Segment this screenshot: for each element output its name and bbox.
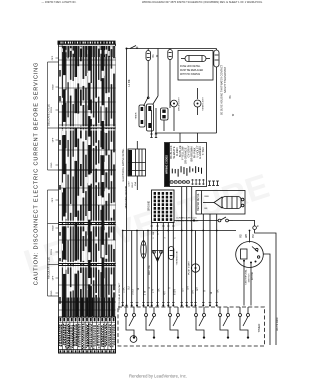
wire to legend: [155, 132, 217, 134]
terminal marks: [150, 134, 157, 138]
svg-text:WITH P/N 3392519: WITH P/N 3392519: [180, 74, 201, 76]
svg-text:FUSE LINK DETAIL: FUSE LINK DETAIL: [180, 65, 201, 68]
svg-text:T-TAN: T-TAN: [201, 147, 205, 155]
svg-text:OFF: OFF: [53, 137, 55, 142]
timer motor block A: [139, 105, 145, 127]
svg-text:6 OR: 6 OR: [173, 289, 176, 295]
safety thermostat: [214, 49, 219, 68]
svg-text:CAUTION: DISCONNECT ELECTRIC C: CAUTION: DISCONNECT ELECTRIC CURRENT BEF…: [33, 62, 39, 285]
stub to legend A: [179, 133, 181, 143]
svg-text:COOL: COOL: [51, 106, 53, 113]
svg-text:BK: BK: [152, 54, 155, 58]
spec labels: [129, 181, 138, 188]
wire to terminal: [233, 221, 255, 226]
legend middle marks: [172, 166, 202, 176]
svg-text:CENTRIFUGAL: CENTRIFUGAL: [245, 269, 248, 285]
svg-text:WH: WH: [246, 234, 248, 238]
wiring code legend box: [165, 143, 207, 187]
timer chart terminal code table: [59, 317, 116, 353]
svg-text:WHITE WIRE: WHITE WIRE: [277, 317, 279, 331]
belt switch: [153, 251, 163, 262]
svg-text:THERMOSTAT: THERMOSTAT: [176, 250, 179, 265]
svg-text:BR: BR: [192, 290, 195, 294]
wire top feed: [127, 48, 217, 50]
svg-text:1 BK: 1 BK: [123, 287, 126, 293]
svg-text:HEAT: HEAT: [52, 84, 55, 90]
regular cycle bracket: [48, 190, 59, 296]
svg-text:PUSH START: PUSH START: [188, 261, 191, 275]
svg-text:HEATER DETAIL: HEATER DETAIL: [197, 192, 200, 210]
svg-text:OFF: OFF: [53, 275, 55, 280]
timer motor block B: [147, 104, 154, 131]
svg-text:MOTOR RELAY CONTACT: MOTOR RELAY CONTACT: [118, 282, 121, 309]
svg-text:TIMER: TIMER: [257, 324, 261, 333]
svg-text:WIRING CODES: WIRING CODES: [166, 155, 169, 174]
junction: [193, 219, 195, 221]
svg-text:TIMER: TIMER: [136, 112, 138, 119]
svg-text:SAFETY THERMOSTAT: SAFETY THERMOSTAT: [224, 66, 227, 93]
svg-text:60HZ: 60HZ: [132, 182, 134, 188]
switch door: [130, 46, 136, 49]
svg-text:TIMER LIGHT: TIMER LIGHT: [203, 96, 205, 111]
svg-text:MOISTURE SENSOR: MOISTURE SENSOR: [126, 185, 128, 208]
svg-text:RED: RED: [205, 196, 210, 198]
cycle tick dashes: [56, 58, 59, 293]
stub to legend B: [197, 133, 199, 143]
svg-text:COOL: COOL: [51, 248, 53, 255]
legend extra symbols: [208, 181, 219, 186]
timer switch 4: [195, 307, 206, 339]
svg-text:BU: BU: [253, 234, 255, 238]
svg-text:2 R: 2 R: [152, 289, 155, 293]
wires to terminal marks: [151, 110, 153, 134]
delicate cycle bracket: [48, 62, 59, 170]
timer switch 5: [219, 307, 230, 339]
legend symbols row: [166, 179, 205, 185]
wire thermostat down: [169, 60, 171, 109]
svg-text:4 Y: 4 Y: [163, 291, 166, 295]
connector plug grid: [152, 190, 175, 223]
wire color labels: [123, 286, 220, 295]
terminal dots: [122, 230, 218, 307]
cycle step labels: [51, 55, 55, 295]
svg-text:— 3397617 REV. A PART NO.: — 3397617 REV. A PART NO.: [42, 0, 77, 4]
timer switch assembly box: [118, 307, 265, 346]
svg-text:SWITCH: SWITCH: [249, 273, 251, 282]
svg-text:L1 BK: L1 BK: [127, 79, 131, 86]
lower vertical wires: [123, 187, 217, 306]
svg-text:GY: GY: [182, 288, 185, 292]
timer switch 6: [239, 307, 250, 339]
svg-text:BK: BK: [217, 289, 220, 293]
svg-text:VIEWED FROM REAR: VIEWED FROM REAR: [176, 220, 199, 223]
svg-text:DELICATE CYCLE: DELICATE CYCLE: [47, 104, 51, 126]
svg-text:ELECTRICAL RATING DETAIL: ELECTRICAL RATING DETAIL: [122, 148, 125, 182]
thermal protector: [141, 241, 146, 259]
fuse detail box: [178, 51, 213, 81]
timer light: [194, 100, 201, 107]
wire motor right: [263, 254, 270, 345]
grid pin ticks: [151, 225, 175, 227]
wire grid to switch: [174, 220, 218, 222]
buzzer: [130, 336, 137, 343]
svg-text:OR: OR: [187, 286, 190, 290]
wire right edge: [255, 230, 276, 346]
timer switch 1: [125, 307, 136, 339]
timer switch 3: [169, 307, 180, 339]
svg-text:5 BU: 5 BU: [132, 289, 135, 295]
svg-text:15A: 15A: [134, 182, 137, 186]
thermostat T2: [168, 49, 173, 60]
operating thermostat: [169, 247, 174, 260]
wire motor down A: [243, 262, 245, 306]
svg-text:OFF: OFF: [52, 55, 54, 60]
drive motor: [236, 242, 264, 268]
svg-text:MOTOR: MOTOR: [252, 272, 254, 281]
svg-text:OFF: OFF: [52, 197, 54, 202]
svg-text:MUST BE REPLACED: MUST BE REPLACED: [180, 69, 204, 72]
svg-text:3 W: 3 W: [144, 290, 147, 295]
wire bus horizontal: [123, 230, 236, 232]
timer switch 2: [145, 307, 156, 339]
svg-text:BK: BK: [158, 288, 161, 292]
wire motor down B: [250, 263, 252, 305]
svg-text:BU: BU: [128, 286, 131, 290]
legend color codes: [169, 145, 205, 164]
svg-text:GROUND: GROUND: [148, 201, 150, 212]
svg-text:BK: BK: [229, 95, 232, 99]
door switch: [218, 217, 233, 222]
svg-text:WIRING DIAGRAM 337 4575 3397: WIRING DIAGRAM 337 4575 3397617 SCHEMATI…: [142, 0, 263, 4]
svg-text:REGULAR CYCLE: REGULAR CYCLE: [47, 257, 51, 279]
connector caption: [176, 218, 199, 223]
terminal circle: [253, 226, 257, 230]
motor labels: [245, 269, 254, 285]
svg-text:120V: 120V: [129, 181, 131, 187]
svg-text:BELT SW: BELT SW: [149, 264, 151, 274]
push-to-start switch: [144, 96, 159, 106]
heater element: [203, 197, 244, 209]
buzzer relay: [161, 108, 169, 131]
terminal ticks: [121, 301, 218, 303]
drum light: [171, 100, 178, 107]
thermal fuse F1: [146, 49, 151, 61]
svg-text:GY: GY: [196, 287, 199, 291]
svg-text:Rendered by LeadVenture, Inc.: Rendered by LeadVenture, Inc.: [129, 374, 187, 379]
svg-text:END: END: [51, 290, 53, 295]
svg-text:R: R: [148, 287, 151, 289]
chart header band: [58, 41, 116, 45]
node L1: [126, 48, 128, 50]
wire branch: [157, 49, 159, 97]
svg-text:END: END: [51, 162, 53, 167]
wire safety down: [216, 67, 218, 133]
heater element detail box: [196, 191, 245, 215]
svg-text:RD: RD: [241, 234, 243, 238]
wire motor top: [249, 231, 251, 243]
start switch: [191, 264, 199, 272]
svg-text:DRUM LIGHT: DRUM LIGHT: [179, 97, 181, 111]
svg-text:HEAT: HEAT: [52, 225, 55, 231]
svg-text:BE SURE HOUSING THAT WATER CON: BE SURE HOUSING THAT WATER CONTACT: [221, 64, 224, 115]
wire L1 down: [126, 49, 128, 306]
wire from fuse down: [147, 61, 149, 98]
